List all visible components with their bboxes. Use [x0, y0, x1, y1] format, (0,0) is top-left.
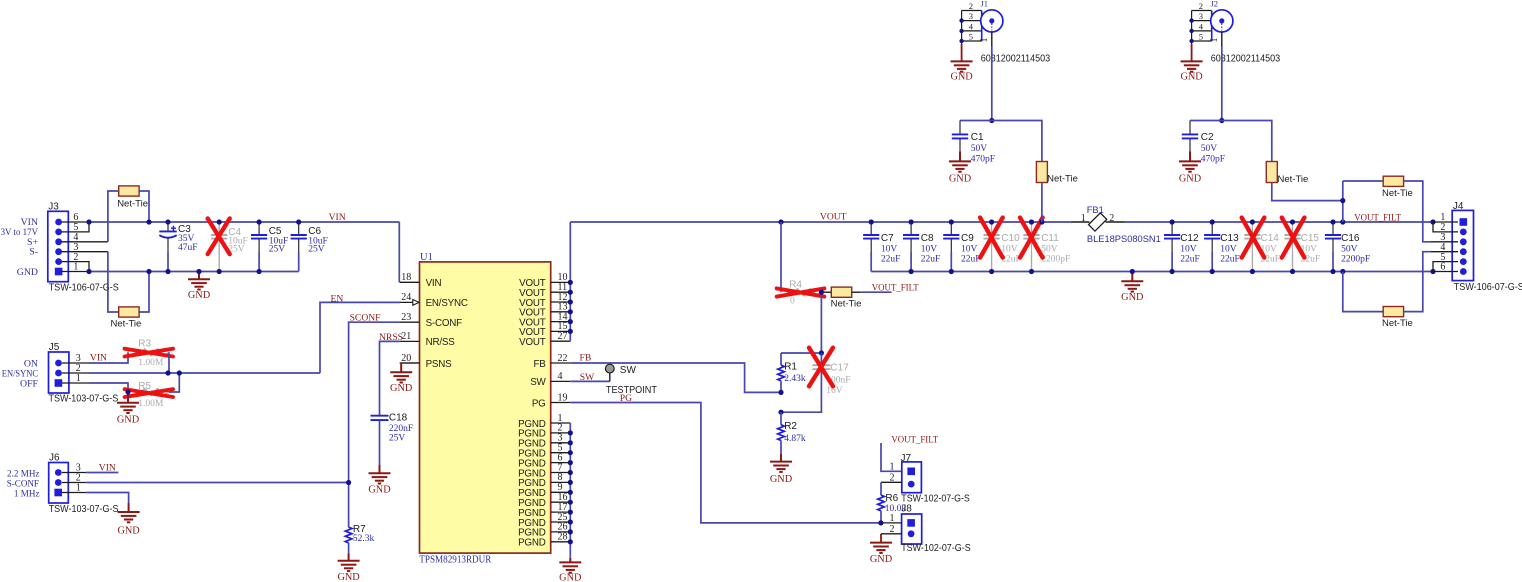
ground (output rail) — [1121, 272, 1143, 292]
svg-text:PG: PG — [532, 398, 546, 409]
wire J6 pin1 to gnd — [86, 493, 128, 504]
svg-text:SW: SW — [530, 377, 546, 388]
svg-text:10V: 10V — [1001, 244, 1018, 254]
svg-text:1: 1 — [1209, 38, 1220, 43]
wire VOUT rail — [570, 221, 1071, 223]
svg-text:GND: GND — [870, 554, 893, 565]
svg-text:5: 5 — [1199, 31, 1203, 41]
svg-text:470pF: 470pF — [1201, 155, 1225, 165]
svg-text:2.43k: 2.43k — [784, 374, 806, 384]
capacitor C16 — [1332, 222, 1334, 235]
svg-text:22uF: 22uF — [961, 255, 981, 265]
wire output bottom rail — [871, 271, 1433, 273]
resistor R1 — [780, 353, 782, 365]
svg-text:10V: 10V — [1180, 244, 1197, 254]
svg-text:R4: R4 — [789, 279, 802, 290]
wire FB net — [570, 363, 781, 392]
wire R4 junction down to R1/C17 — [781, 292, 821, 353]
wire J2 pin1 down — [1221, 32, 1223, 46]
svg-text:1: 1 — [979, 38, 990, 43]
red X over R4 — [777, 288, 825, 296]
svg-text:0: 0 — [790, 297, 795, 307]
svg-text:28: 28 — [558, 532, 568, 543]
ground (C18) — [369, 465, 391, 484]
svg-text:22uF: 22uF — [1220, 255, 1240, 265]
svg-text:10V: 10V — [961, 244, 978, 254]
testpoint SW — [609, 373, 611, 382]
capacitor C4 (DNP) — [218, 222, 220, 235]
wire VOUT_FILT stub (R4) — [861, 291, 892, 293]
svg-text:22: 22 — [558, 353, 568, 364]
capacitor C5 — [258, 222, 260, 235]
svg-text:Net-Tie: Net-Tie — [1382, 188, 1413, 199]
capacitor C15 (DNP) — [1292, 222, 1294, 235]
svg-text:TPSM82913RDUR: TPSM82913RDUR — [419, 554, 491, 565]
capacitor C8 — [910, 222, 912, 235]
capacitor C18 — [371, 416, 389, 420]
red X over C14 — [1242, 218, 1265, 258]
J3 pin stubs — [62, 222, 108, 272]
svg-text:GND: GND — [117, 415, 140, 426]
capacitor C11 (DNP) — [1031, 222, 1033, 235]
svg-text:J5: J5 — [49, 342, 60, 353]
ground (PSNS) — [390, 363, 412, 383]
svg-text:1.00M: 1.00M — [138, 399, 164, 409]
svg-text:4: 4 — [1199, 21, 1204, 31]
connector J8 — [901, 503, 921, 544]
svg-text:GND: GND — [188, 290, 211, 301]
svg-text:C14: C14 — [1261, 233, 1280, 244]
svg-text:GND: GND — [1180, 72, 1203, 83]
svg-text:C15: C15 — [1301, 233, 1320, 244]
svg-text:52.3k: 52.3k — [353, 534, 375, 544]
ground (C2) — [1189, 152, 1191, 162]
ground (R2) — [770, 454, 792, 472]
svg-text:J3: J3 — [48, 202, 59, 213]
svg-text:10V: 10V — [1220, 244, 1237, 254]
ground (PGND) — [559, 558, 581, 573]
svg-text:J6: J6 — [49, 453, 60, 464]
svg-text:50V: 50V — [1341, 244, 1358, 254]
svg-text:Net-Tie: Net-Tie — [1278, 174, 1309, 185]
net-tie NT2 (bottom of J3) — [108, 252, 119, 312]
wire VIN to U1 pin 18 — [398, 222, 400, 282]
red X over C4 — [208, 219, 230, 255]
connector J3 — [48, 202, 69, 282]
svg-text:VOUT: VOUT — [519, 337, 546, 348]
resistor R6 — [878, 495, 885, 511]
svg-text:4: 4 — [558, 371, 563, 382]
capacitor C14 (DNP) — [1251, 222, 1253, 235]
svg-text:Net-Tie: Net-Tie — [117, 199, 148, 210]
svg-text:VOUT_FILT: VOUT_FILT — [891, 435, 938, 446]
red X over C10 — [980, 218, 1003, 258]
svg-text:GND: GND — [1121, 292, 1144, 303]
U1 pin 24 input arrow — [413, 300, 419, 306]
svg-text:47uF: 47uF — [178, 243, 198, 253]
svg-text:SW: SW — [620, 365, 637, 376]
svg-text:1 MHz: 1 MHz — [14, 488, 40, 499]
svg-text:3: 3 — [1199, 11, 1203, 21]
U1 left pin stubs and names — [400, 281, 420, 283]
svg-text:50V: 50V — [1201, 144, 1218, 154]
wire PGND bus vertical to ground — [569, 423, 571, 558]
resistor R5 (DNP) — [128, 389, 169, 396]
resistor R7 — [345, 527, 352, 543]
svg-text:GND: GND — [950, 72, 973, 83]
svg-text:25V: 25V — [269, 245, 286, 255]
svg-text:VOUT_FILT: VOUT_FILT — [1354, 212, 1401, 223]
capacitor C17 (DNP) — [820, 353, 822, 365]
svg-text:TSW-102-07-G-S: TSW-102-07-G-S — [901, 543, 971, 554]
svg-text:GND: GND — [770, 474, 793, 485]
junction dots input rails — [86, 219, 91, 224]
svg-text:GND: GND — [337, 572, 360, 582]
capacitor C3 — [167, 222, 169, 231]
ground (J6 pin1) — [118, 503, 140, 522]
resistor R2 — [780, 412, 782, 425]
svg-text:20: 20 — [401, 353, 411, 364]
svg-text:R1: R1 — [784, 361, 797, 372]
svg-text:C1: C1 — [971, 132, 984, 143]
svg-text:VOUT_FILT: VOUT_FILT — [872, 282, 919, 293]
svg-text:C16: C16 — [1341, 233, 1360, 244]
red X over C17 — [809, 348, 833, 387]
wire PSNS to ground — [401, 362, 419, 364]
net-tie NT4 (J1) — [992, 121, 1042, 163]
svg-text:NR/SS: NR/SS — [426, 337, 456, 348]
svg-text:470pF: 470pF — [971, 155, 995, 165]
wire J5 pin3 to R3 — [89, 352, 128, 363]
net-tie NT6 (top right) — [1343, 180, 1384, 182]
net-tie NT1 (top of J3) — [108, 191, 119, 242]
svg-text:21: 21 — [401, 331, 411, 342]
svg-text:SCONF: SCONF — [350, 313, 381, 324]
connector J6 — [49, 453, 69, 503]
svg-text:22uF: 22uF — [921, 255, 941, 265]
svg-text:18: 18 — [401, 272, 411, 283]
ground (C1) — [959, 152, 961, 162]
connector J5 — [49, 342, 69, 393]
wire J7 pin2 to R6 — [881, 481, 902, 483]
wire R3 right to EN net — [168, 352, 170, 373]
svg-text:4.87k: 4.87k — [784, 434, 806, 444]
red X over R5 — [125, 389, 173, 397]
svg-text:GND: GND — [117, 526, 140, 537]
svg-text:EN: EN — [331, 294, 344, 305]
svg-text:1: 1 — [1081, 213, 1086, 224]
svg-text:22uF: 22uF — [881, 255, 901, 265]
svg-text:1.00M: 1.00M — [138, 358, 164, 368]
svg-text:FB1: FB1 — [1087, 205, 1104, 215]
red X over C11 — [1020, 218, 1043, 258]
net-tie NT3 (R4 output) — [821, 291, 831, 293]
svg-text:VIN: VIN — [426, 278, 442, 289]
svg-text:2200pF: 2200pF — [1041, 255, 1070, 265]
ground (J5/R5) — [117, 392, 139, 413]
wire VIN top rail — [89, 221, 399, 223]
red X over R3 — [125, 349, 173, 357]
svg-text:EN/SYNC: EN/SYNC — [426, 298, 468, 309]
svg-text:GND: GND — [949, 174, 972, 185]
svg-text:J7: J7 — [901, 453, 912, 464]
wire SCONF from U1 pin 23 down to J6/R7 — [349, 322, 400, 527]
svg-text:J4: J4 — [1453, 201, 1464, 212]
wire J6 pin3 VIN stub — [86, 472, 118, 474]
svg-text:PGND: PGND — [518, 538, 546, 549]
resistor R3 (DNP) — [128, 349, 169, 356]
svg-text:2: 2 — [1109, 213, 1114, 224]
svg-text:10V: 10V — [921, 244, 938, 254]
svg-text:27: 27 — [558, 331, 568, 342]
wire R5 right jog — [169, 373, 179, 392]
svg-text:50V: 50V — [971, 144, 988, 154]
svg-text:C13: C13 — [1220, 233, 1239, 244]
svg-text:2: 2 — [969, 1, 973, 11]
wire VOUT to R4 — [780, 222, 782, 292]
capacitor C6 — [298, 222, 300, 235]
ground (input rail) — [188, 272, 210, 290]
connector J7 — [901, 453, 922, 493]
svg-text:5: 5 — [969, 31, 973, 41]
svg-text:OFF: OFF — [20, 379, 39, 390]
svg-text:3V to 17V: 3V to 17V — [1, 227, 38, 238]
svg-text:S-CONF: S-CONF — [426, 318, 463, 329]
ground (J2 shell) — [1191, 44, 1193, 61]
svg-text:23: 23 — [401, 312, 411, 323]
svg-text:GND: GND — [368, 484, 391, 495]
svg-text:FB: FB — [580, 353, 592, 364]
wire PG net — [570, 403, 881, 523]
ferrite bead FB1 — [1071, 221, 1090, 223]
svg-text:C9: C9 — [961, 233, 974, 244]
capacitor C2 — [1190, 120, 1222, 122]
svg-text:GND: GND — [390, 383, 413, 394]
svg-text:J2: J2 — [1211, 0, 1219, 9]
svg-text:C18: C18 — [389, 412, 408, 423]
svg-text:VIN: VIN — [90, 353, 107, 364]
svg-text:S-: S- — [29, 247, 38, 258]
svg-text:C10: C10 — [1001, 233, 1020, 244]
svg-text:25V: 25V — [308, 245, 325, 255]
net-tie NT5 (J2) — [1222, 121, 1272, 163]
capacitor C1 — [960, 120, 992, 122]
svg-text:PG: PG — [620, 393, 632, 404]
svg-text:Net-Tie: Net-Tie — [111, 319, 142, 330]
ground (R7) — [338, 554, 360, 572]
svg-text:C12: C12 — [1180, 233, 1199, 244]
svg-text:2: 2 — [1199, 1, 1203, 11]
svg-text:SW: SW — [580, 372, 595, 383]
wire J8 pin2 to gnd — [881, 533, 902, 535]
junction dots VOUT rails — [778, 219, 783, 224]
svg-text:R3: R3 — [138, 339, 151, 350]
wire J8 pin1 stub — [881, 522, 902, 524]
svg-text:Net-Tie: Net-Tie — [831, 298, 862, 309]
svg-text:24: 24 — [401, 292, 411, 303]
svg-text:4: 4 — [969, 21, 974, 31]
svg-text:19: 19 — [558, 392, 568, 403]
capacitor C10 (DNP) — [991, 222, 993, 235]
svg-text:FB: FB — [533, 359, 546, 370]
wire J5 pin1 to R5 — [89, 383, 128, 392]
svg-text:PSNS: PSNS — [426, 359, 453, 370]
red X over C15 — [1282, 218, 1305, 258]
ground (J1 shell) — [961, 44, 963, 61]
svg-text:R6: R6 — [885, 493, 898, 504]
svg-text:TSW-106-07-G-S: TSW-106-07-G-S — [1454, 282, 1522, 293]
svg-text:GND: GND — [559, 572, 582, 582]
svg-text:VIN: VIN — [329, 212, 346, 223]
svg-text:2200pF: 2200pF — [1341, 255, 1370, 265]
wire SW net — [570, 380, 610, 382]
svg-text:3: 3 — [969, 11, 973, 21]
svg-text:BLE18PS080SN1: BLE18PS080SN1 — [1087, 234, 1161, 244]
op-amp/regulator U1 TPSM82913RDUR — [420, 262, 551, 553]
svg-text:U1: U1 — [420, 252, 433, 263]
svg-text:J8: J8 — [901, 503, 912, 514]
capacitor C13 — [1211, 222, 1213, 235]
wire EN vertical and to U1 pin 24 — [320, 302, 400, 373]
svg-text:NRSS: NRSS — [379, 332, 403, 343]
wire NR/SS to C18 — [380, 341, 400, 415]
wire VOUT_FILT rail — [1125, 221, 1434, 223]
svg-text:VOUT: VOUT — [820, 212, 847, 223]
ground (J8) — [870, 543, 892, 553]
svg-text:C17: C17 — [830, 362, 849, 373]
svg-text:R2: R2 — [784, 421, 797, 432]
svg-text:25V: 25V — [389, 434, 406, 444]
svg-text:C8: C8 — [921, 233, 934, 244]
resistor R4 (DNP) — [781, 289, 821, 296]
svg-text:Net-Tie: Net-Tie — [1047, 173, 1078, 184]
connector J4 — [1452, 201, 1473, 281]
wire VOUT bus vertical — [569, 222, 571, 341]
svg-text:22uF: 22uF — [1180, 255, 1200, 265]
capacitor C9 — [950, 222, 952, 235]
svg-text:GND: GND — [17, 267, 38, 278]
svg-text:Net-Tie: Net-Tie — [1382, 318, 1413, 329]
svg-text:GND: GND — [1179, 174, 1202, 185]
svg-text:1: 1 — [890, 462, 895, 473]
J4 pin stubs — [1431, 222, 1458, 272]
svg-text:C2: C2 — [1201, 132, 1214, 143]
svg-text:J1: J1 — [981, 0, 989, 9]
wire J5 pin2 EN — [89, 372, 320, 374]
wire J6 pin2 S-CONF — [86, 482, 348, 484]
capacitor C7 — [870, 222, 872, 235]
wire J1 pin1 down — [991, 32, 993, 46]
wire to VOUT_FILT rail — [1342, 181, 1344, 222]
net-tie NT7 (bottom right) — [1343, 272, 1384, 312]
svg-text:10V: 10V — [881, 244, 898, 254]
svg-text:50V: 50V — [1041, 244, 1058, 254]
svg-text:C11: C11 — [1041, 233, 1059, 244]
capacitor C12 — [1171, 222, 1173, 235]
svg-text:TSW-103-07-G-S: TSW-103-07-G-S — [49, 504, 119, 515]
wire input bottom rail — [89, 271, 299, 273]
svg-text:TSW-103-07-G-S: TSW-103-07-G-S — [49, 393, 119, 404]
U1 right pin stubs and names — [551, 281, 571, 283]
wire VOUT_FILT to J7 pin1 — [881, 443, 902, 471]
svg-text:C7: C7 — [881, 233, 894, 244]
